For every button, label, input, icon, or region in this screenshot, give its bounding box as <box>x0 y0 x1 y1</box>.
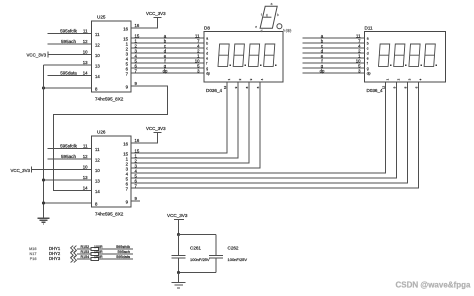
svg-text:11: 11 <box>95 147 100 152</box>
svg-text:13: 13 <box>95 178 100 183</box>
resistor R153 <box>91 253 99 256</box>
svg-text:16: 16 <box>135 138 140 143</box>
svg-text:2: 2 <box>396 78 400 80</box>
svg-text:D8: D8 <box>204 26 210 31</box>
D11 digit glyph 1 <box>379 44 392 66</box>
power symbol VCC_3V3 at caps <box>174 219 184 221</box>
display body D11 <box>365 32 446 83</box>
svg-text:VCC_3V3: VCC_3V3 <box>146 126 166 131</box>
svg-text:C262: C262 <box>228 246 239 251</box>
svg-text:4: 4 <box>418 78 422 80</box>
svg-text:VCC_3V3: VCC_3V3 <box>10 168 30 173</box>
legend dp circle <box>277 24 282 29</box>
IC body U26 <box>92 136 132 207</box>
svg-text:595data: 595data <box>116 255 131 259</box>
svg-text:100R: 100R <box>94 245 103 249</box>
wire C261 bottom lead <box>178 258 180 272</box>
svg-text:9: 9 <box>126 199 129 204</box>
svg-text:R154: R154 <box>81 255 90 259</box>
svg-text:11: 11 <box>83 29 88 34</box>
D11 digit glyph 2 <box>394 44 407 66</box>
wire DHY1 to resistor R152 <box>77 248 91 250</box>
D8 digit glyph 3 <box>248 44 261 66</box>
svg-text:595sfclk: 595sfclk <box>116 245 130 249</box>
svg-text:595data: 595data <box>60 71 77 76</box>
D8 digit glyph 1 <box>218 44 231 66</box>
wire segment net f stub to D11 pin 10 <box>303 62 366 64</box>
wire ground stem at caps <box>178 273 180 283</box>
wire DHY3 to resistor R154 <box>77 258 91 260</box>
wire U26 pin 2 to D8 digit 3 common <box>131 82 249 163</box>
svg-text:d: d <box>206 51 208 55</box>
svg-text:M16: M16 <box>29 247 36 251</box>
junction gnd bus at U26 pin 13 <box>42 179 45 182</box>
svg-text:10: 10 <box>83 165 88 170</box>
resistor R154 <box>91 258 99 261</box>
svg-text:2: 2 <box>238 78 242 80</box>
D8 digit glyph 2 <box>233 44 246 66</box>
D11 digit glyph 3 <box>409 44 422 66</box>
wire U26 pin 15 to D8 digit 1 common <box>131 82 227 153</box>
svg-text:8: 8 <box>95 86 98 91</box>
wire VCC_3V3 to U25 pin 10 <box>48 54 92 56</box>
svg-text:14: 14 <box>95 74 100 79</box>
wire resistor R154 to net 595data <box>99 258 133 260</box>
power symbol VCC_3V3 above U25 <box>154 17 162 19</box>
power symbol VCC_3V3 above U26 <box>154 132 162 134</box>
svg-text:d: d <box>261 29 263 33</box>
ground symbol at caps <box>172 282 186 288</box>
wire segment net e U25 pin 4 to D8 pin 1 <box>131 57 204 59</box>
capacitor C261 <box>172 255 186 258</box>
svg-text:3: 3 <box>249 78 253 80</box>
svg-text:6: 6 <box>256 86 260 88</box>
wire U26 pin 6 to D11 digit 3 common <box>131 82 408 183</box>
svg-text:11: 11 <box>95 32 100 37</box>
svg-text:U25: U25 <box>97 15 106 20</box>
svg-text:8: 8 <box>403 86 407 88</box>
wire net 595sfclk to U26 pin 11 <box>48 148 92 150</box>
svg-text:595ach: 595ach <box>61 39 77 44</box>
svg-text:e: e <box>255 25 257 29</box>
wire gnd bus to U26 pin 8 <box>44 202 92 204</box>
svg-text:c: c <box>206 46 208 50</box>
wire segment net g stub to D11 pin 5 <box>303 67 366 69</box>
svg-text:9: 9 <box>135 196 138 201</box>
svg-text:12: 12 <box>95 157 100 162</box>
svg-text:10: 10 <box>83 50 88 55</box>
capacitor C262 <box>209 255 223 258</box>
svg-text:12: 12 <box>381 86 385 90</box>
svg-text:74hc595_8X2: 74hc595_8X2 <box>95 97 124 102</box>
wire segment net dp stub to D11 pin 3 <box>303 72 366 74</box>
wire C262 top lead <box>215 235 217 256</box>
wire gnd bus to U25 pin 8 <box>44 87 92 89</box>
svg-text:74hc595_8X2: 74hc595_8X2 <box>95 212 124 217</box>
svg-text:100nF/25V: 100nF/25V <box>190 257 210 262</box>
svg-text:dp: dp <box>320 68 325 73</box>
D11 digit glyph 4 <box>424 44 437 66</box>
wire gnd bus to U25 pin 13 <box>44 64 92 66</box>
wire DHY2 to resistor R153 <box>77 253 91 255</box>
wire resistor R153 to net 595ach <box>99 253 133 255</box>
ground symbol GND <box>38 218 50 224</box>
wire U26 pin 3 to D8 digit 4 common <box>131 82 260 168</box>
svg-text:e: e <box>367 56 369 60</box>
svg-text:4: 4 <box>260 78 264 80</box>
svg-text:13: 13 <box>83 175 88 180</box>
wire U26 pin 7 to D11 digit 4 common <box>131 82 419 188</box>
wire segment net f U25 pin 5 to D8 pin 10 <box>131 62 204 64</box>
wire segment net dp U25 pin 7 to D8 pin 3 <box>131 72 204 74</box>
svg-text:VCC_3V3: VCC_3V3 <box>146 11 166 16</box>
svg-text:16: 16 <box>123 141 128 146</box>
svg-text:11: 11 <box>83 144 88 149</box>
svg-text:f: f <box>261 13 262 17</box>
svg-text:b: b <box>277 13 279 17</box>
power port bar VCC_3V3 U25.10 <box>47 52 49 58</box>
svg-text:100R: 100R <box>94 255 103 259</box>
svg-text:R153: R153 <box>81 250 90 254</box>
svg-text:D11: D11 <box>365 26 374 31</box>
wire cap top rail <box>179 234 216 236</box>
svg-text:h (dp): h (dp) <box>283 29 291 33</box>
junction VCC rail <box>177 233 180 236</box>
svg-text:12: 12 <box>83 154 88 159</box>
7-segment legend glyph <box>260 6 277 28</box>
svg-text:b: b <box>367 41 369 45</box>
svg-text:VCC_3V3: VCC_3V3 <box>167 213 188 218</box>
wire segment net c U25 pin 2 to D8 pin 4 <box>131 47 204 49</box>
svg-text:8: 8 <box>245 86 249 88</box>
IC body U25 <box>92 21 132 92</box>
wire VCC_3V3 to U26 pin 10 <box>32 169 92 171</box>
harness entry chevron DHY3 <box>71 256 77 263</box>
svg-text:595ach: 595ach <box>118 250 130 254</box>
svg-text:VCC_3V3: VCC_3V3 <box>27 53 47 58</box>
junction at gnd bus and U25 pin 8 <box>42 87 45 90</box>
wire segment net d stub to D11 pin 2 <box>303 52 366 54</box>
svg-text:9: 9 <box>135 81 138 86</box>
svg-text:8: 8 <box>95 201 98 206</box>
svg-text:f: f <box>206 61 207 65</box>
wire segment net e stub to D11 pin 1 <box>303 57 366 59</box>
svg-text:c: c <box>367 46 369 50</box>
wire net 595ach to U25 pin 12 <box>48 43 92 45</box>
svg-text:9: 9 <box>126 84 129 89</box>
svg-text:16: 16 <box>135 23 140 28</box>
svg-text:12: 12 <box>223 86 227 90</box>
svg-text:7: 7 <box>126 71 129 76</box>
wire U26 pin 4 to D11 digit 1 common <box>131 82 386 173</box>
resistor R152 <box>91 248 99 251</box>
svg-text:dp: dp <box>163 68 168 73</box>
svg-text:9: 9 <box>392 86 396 88</box>
svg-text:1: 1 <box>385 78 389 80</box>
svg-text:R152: R152 <box>81 245 90 249</box>
wire segment net g U25 pin 6 to D8 pin 5 <box>131 67 204 69</box>
svg-text:d: d <box>367 51 369 55</box>
wire C262 bottom lead <box>215 258 217 272</box>
svg-text:13: 13 <box>95 63 100 68</box>
svg-text:12: 12 <box>95 42 100 47</box>
svg-text:CSDN @wave&fpga: CSDN @wave&fpga <box>396 281 471 290</box>
wire net 595data to U25 pin 14 <box>48 75 92 77</box>
svg-text:g: g <box>367 66 369 70</box>
svg-text:b: b <box>206 41 208 45</box>
wire U26 pin 5 to D11 digit 2 common <box>131 82 397 178</box>
svg-text:100R: 100R <box>94 250 103 254</box>
D8 digit glyph 4 <box>264 44 277 66</box>
svg-text:g: g <box>206 66 208 70</box>
svg-text:16: 16 <box>123 26 128 31</box>
svg-text:C261: C261 <box>190 246 201 251</box>
svg-text:dp: dp <box>206 71 210 75</box>
svg-text:a: a <box>206 36 208 40</box>
svg-text:DHY3: DHY3 <box>49 256 61 261</box>
svg-text:dp: dp <box>367 71 371 75</box>
wire U26 pin 1 to D8 digit 2 common <box>131 82 238 158</box>
svg-text:9: 9 <box>234 86 238 88</box>
svg-text:D036_4: D036_4 <box>206 88 223 93</box>
svg-text:12: 12 <box>83 39 88 44</box>
svg-text:a: a <box>367 36 369 40</box>
wire U25 pin 16 to VCC <box>131 18 158 29</box>
svg-text:U26: U26 <box>97 130 106 135</box>
wire cap bottom rail <box>179 272 216 274</box>
wire net 595ach to U26 pin 12 <box>48 158 92 160</box>
display body D8 <box>204 32 283 83</box>
wire U25 pin 9 QH' to U26 pin 14 <box>54 86 168 191</box>
wire net 595sfclk to U25 pin 11 <box>48 33 92 35</box>
svg-text:10: 10 <box>95 53 100 58</box>
wire gnd bus to U26 pin 13 <box>44 179 92 181</box>
svg-text:14: 14 <box>83 71 88 76</box>
svg-text:e: e <box>206 56 208 60</box>
wire ground bus vertical <box>43 65 45 218</box>
svg-text:595ach: 595ach <box>61 154 77 159</box>
wire C261 top lead <box>178 235 180 256</box>
svg-text:14: 14 <box>83 186 88 191</box>
wire segment net b U25 pin 1 to D8 pin 7 <box>131 42 204 44</box>
wire segment net a U25 pin 15 to D8 pin 11 <box>131 37 204 39</box>
wire segment net a stub to D11 pin 11 <box>303 37 366 39</box>
wire VCC stem to cap rail <box>178 220 180 235</box>
wire segment net c stub to D11 pin 4 <box>303 47 366 49</box>
harness entry chevron DHY2 <box>71 251 77 258</box>
svg-text:100nF/25V: 100nF/25V <box>228 257 248 262</box>
junction cap ground rail <box>177 271 180 274</box>
svg-text:3: 3 <box>407 78 411 80</box>
power port bar VCC_3V3 U26.10 <box>31 167 33 173</box>
svg-text:10: 10 <box>95 168 100 173</box>
wire segment net b stub to D11 pin 7 <box>303 42 366 44</box>
svg-text:a: a <box>271 2 273 6</box>
harness entry chevron DHY1 <box>71 246 77 253</box>
svg-text:595sfclk: 595sfclk <box>60 144 78 149</box>
wire U26 pin 16 to VCC <box>131 133 158 144</box>
svg-text:7: 7 <box>126 186 129 191</box>
svg-text:N17: N17 <box>30 252 37 256</box>
wire resistor R152 to net 595sfclk <box>99 248 133 250</box>
U26 pin 9 stub wire <box>131 200 140 202</box>
svg-text:P16: P16 <box>30 257 37 261</box>
wire segment net d U25 pin 3 to D8 pin 2 <box>131 52 204 54</box>
svg-text:1: 1 <box>227 78 231 80</box>
svg-text:f: f <box>367 61 368 65</box>
svg-text:13: 13 <box>83 60 88 65</box>
svg-text:6: 6 <box>414 86 418 88</box>
svg-text:595sfclk: 595sfclk <box>60 29 78 34</box>
svg-text:g: g <box>266 13 268 17</box>
junction gnd bus at U26 pin 8 <box>42 202 45 205</box>
svg-text:14: 14 <box>95 189 100 194</box>
